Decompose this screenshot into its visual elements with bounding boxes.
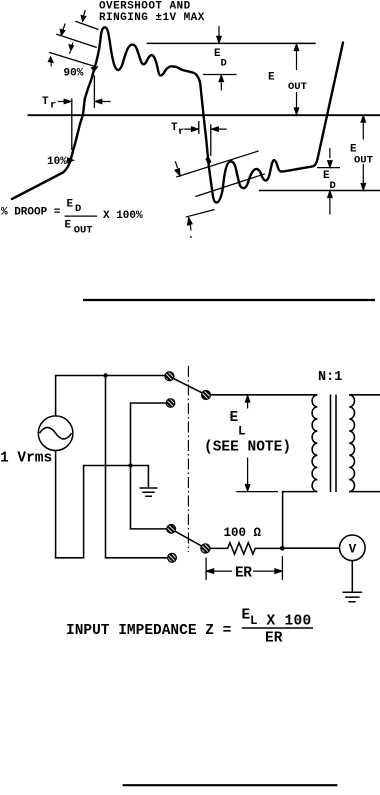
transformer core [331,395,337,493]
switch terminal B1 [167,525,176,534]
svg-text:D: D [75,203,81,215]
svg-text:R: R [243,566,252,582]
svg-text:(SEE NOTE): (SEE NOTE) [204,440,291,456]
ER arrow left [207,569,232,574]
switch common RB [201,544,210,553]
transformer T1 secondary [349,395,354,492]
Tr rise left vertical [71,98,73,150]
90 percent arrowhead on rising edge [91,67,98,72]
Tr fall left vertical [198,121,200,134]
svg-text:INPUT IMPEDANCE Z =: INPUT IMPEDANCE Z = [66,623,231,639]
svg-text:r: r [50,100,56,112]
overshoot annotation line L2 [56,34,97,47]
ER left tick [205,558,207,581]
dash-dot gang line [187,366,189,552]
Tr rise right vertical [93,76,95,109]
bottom rule [123,784,338,786]
wire RA to transformer [211,394,317,396]
svg-text:T: T [171,122,178,134]
switch terminal B2 [168,553,177,562]
wire junction to B1 [131,466,167,529]
svg-text:RINGING ±1V MAX: RINGING ±1V MAX [99,12,205,24]
svg-text:L: L [238,425,246,439]
Tr fall right vertical [210,124,212,156]
section divider [83,299,375,301]
junction dot mid [128,463,132,467]
wire source bottom U [56,451,145,558]
10% arrow [67,158,73,163]
svg-text:r: r [178,126,184,138]
svg-text:OVERSHOOT AND: OVERSHOOT AND [99,1,191,13]
svg-text:10%: 10% [47,156,67,168]
transformer T1 primary [312,395,317,492]
undershoot diagonal D2 [196,174,266,197]
overshoot annotation line L3 [49,52,95,66]
top reference line [147,42,316,44]
svg-text:V: V [349,543,357,557]
wire source top [56,376,165,416]
svg-text:D: D [221,58,227,70]
svg-text:E: E [65,220,72,232]
svg-text:X 100%: X 100% [103,210,143,222]
junction dot resistor [280,546,285,551]
resistor R1 [210,543,281,554]
svg-text:E: E [268,72,275,84]
overshoot annotation line L1 [75,21,98,29]
source V1 circle [38,416,73,451]
EOUT upper dimension [294,44,298,70]
wire to voltmeter [282,547,339,549]
primary bottom wire [283,492,318,548]
ED top arrow [217,26,221,43]
settled level line [317,167,340,169]
svg-text:X 100: X 100 [267,614,312,630]
Tr left arrow [58,99,71,103]
switch common RA [202,391,211,400]
svg-text:N:1: N:1 [318,370,342,385]
falling edge arrowhead diamond [206,157,211,165]
ED bottom arrow [219,75,223,90]
ED right upper arrow [328,148,332,167]
arrow A4 below L3 [48,57,53,67]
ground symbol left [140,488,158,496]
wire A2 branch [131,403,167,466]
ED right lower arrow [328,191,332,215]
EOUT right dimension [361,116,365,140]
junction dot top [103,373,107,377]
Tr fall right arrow [212,127,227,131]
svg-text:E: E [67,199,74,211]
ground symbol right [343,592,363,601]
EL reference tick [236,491,278,493]
svg-text:OUT: OUT [288,81,307,93]
svg-text:90%: 90% [64,68,84,80]
svg-text:100 Ω: 100 Ω [224,526,262,540]
voltmeter ground wire [351,561,353,593]
D3 arrow [188,218,193,238]
Tr right arrow [95,99,110,103]
arrow A3 [69,43,73,54]
waveform main trace [12,27,343,202]
switch blade A [174,379,203,393]
droop level line [203,74,237,76]
ER right tick [281,556,283,580]
ER arrow right [253,569,282,574]
D1 arrow [175,161,180,175]
arrow A1 [81,10,86,21]
voltmeter M1 [340,535,366,561]
wire ground drop [145,466,148,488]
Tr fall left arrow [184,127,198,131]
switch terminal A1 [165,372,174,381]
lower reference line [259,190,380,192]
source sine [40,427,72,439]
svg-text:L: L [250,614,258,628]
svg-text:1 Vrms: 1 Vrms [0,451,52,467]
undershoot diagonal D3 [186,210,215,218]
EL dimension arrow [245,396,249,409]
secondary wires to edge [349,395,380,492]
switch terminal A2 [166,399,175,408]
svg-text:OUT: OUT [74,225,93,237]
svg-text:% DROOP =: % DROOP = [1,207,61,219]
svg-text:ER: ER [265,631,283,647]
baseline [28,114,380,116]
switch blade B [175,531,201,546]
undershoot diagonal D1 [176,151,258,177]
wire top junction down to B2 [106,376,168,558]
svg-text:T: T [42,96,49,108]
arrow A2 [60,24,65,36]
